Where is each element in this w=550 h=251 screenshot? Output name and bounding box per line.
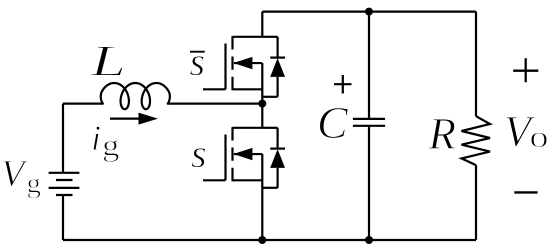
svg-text:C: C xyxy=(317,97,349,148)
capacitor C branch upper xyxy=(368,12,370,119)
svg-text:g: g xyxy=(27,168,42,200)
gate lead xyxy=(203,179,226,181)
current arrow i_g xyxy=(110,113,158,125)
gate bar xyxy=(224,135,226,181)
svg-text:R: R xyxy=(428,109,457,159)
channel dashes xyxy=(231,36,233,90)
svg-text:i: i xyxy=(91,118,101,158)
drain lead from switch node xyxy=(261,104,263,128)
gate bar xyxy=(224,44,226,90)
body diode D1 xyxy=(262,37,285,97)
svg-text:s: s xyxy=(191,131,207,176)
drain tap xyxy=(233,127,263,129)
channel dashes xyxy=(231,127,233,181)
drain lead to top rail xyxy=(261,12,263,37)
source vertical to bottom rail xyxy=(261,154,263,240)
source tap xyxy=(233,88,263,90)
node switch junction dot xyxy=(258,100,266,108)
body diode D2 xyxy=(262,128,285,188)
label plus Vo xyxy=(513,58,538,82)
node top cap dot xyxy=(365,8,373,16)
drain tap xyxy=(233,36,263,38)
inductor L coil xyxy=(101,83,170,109)
wire right rail upper xyxy=(475,12,477,117)
body tap with arrow xyxy=(234,153,262,155)
wire bottom rail xyxy=(63,239,476,241)
source tap xyxy=(233,179,263,181)
node bottom switch dot xyxy=(258,236,266,244)
body/source vertical to switch node xyxy=(261,63,263,104)
svg-text:o: o xyxy=(530,119,549,154)
label minus Vo xyxy=(514,191,537,193)
label plus C xyxy=(334,75,352,94)
resistor R zigzag xyxy=(462,116,491,165)
capacitor C branch lower xyxy=(368,126,370,240)
svg-text:L: L xyxy=(90,37,126,86)
svg-text:s: s xyxy=(190,39,206,84)
body tap with arrow xyxy=(234,62,262,64)
gate lead xyxy=(203,88,226,90)
svg-text:g: g xyxy=(102,128,120,163)
svg-text:V: V xyxy=(1,153,28,195)
wire top rail xyxy=(262,11,476,13)
wire left rail upper xyxy=(62,104,64,173)
wire right rail lower xyxy=(475,165,477,240)
transistor Q1 (upper MOSFET) xyxy=(203,12,262,104)
node bottom cap dot xyxy=(365,236,373,244)
wire inductor left xyxy=(63,102,103,104)
wire inductor right to switch node xyxy=(168,102,263,104)
battery source Vg xyxy=(49,173,80,195)
transistor Q2 (lower MOSFET) xyxy=(203,104,262,240)
capacitor C plates xyxy=(353,119,385,126)
wire left rail lower xyxy=(62,195,64,240)
